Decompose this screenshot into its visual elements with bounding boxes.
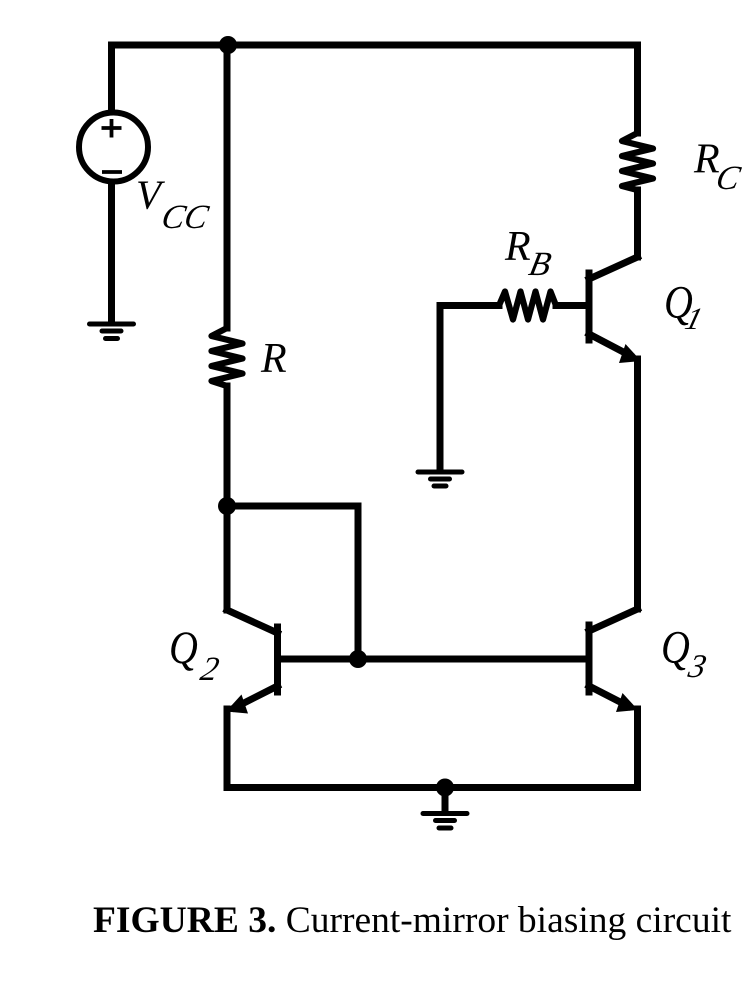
label VCC (136, 172, 213, 236)
voltage source VCC (79, 113, 148, 182)
svg-text:Q: Q (661, 622, 690, 674)
transistor Q2 (274, 627, 281, 692)
wire RC bottom lead (634, 190, 641, 257)
wire base rail Q2-Q3 (278, 656, 590, 663)
node junction base rail (349, 650, 367, 668)
svg-text:R: R (693, 137, 720, 183)
resistor R (212, 328, 243, 386)
node junction top rail (219, 36, 237, 54)
resistor RC (622, 133, 653, 190)
wire Q3 emitter lead (634, 709, 641, 788)
svg-text:V: V (136, 172, 165, 218)
label Q1 (664, 277, 706, 336)
wire RC top lead (634, 45, 641, 133)
label Q3 (661, 622, 710, 685)
ground (below RB) (418, 472, 462, 486)
wire node A to base rail (227, 506, 358, 659)
wire R branch upper (224, 45, 231, 328)
svg-text:CC: CC (158, 198, 212, 236)
wire top rail (112, 42, 638, 49)
wire RB left lead (440, 306, 499, 471)
wire R branch lower (224, 386, 231, 506)
transistor Q1 (586, 273, 593, 340)
transistor Q3 (586, 625, 593, 692)
label Q2 (169, 622, 222, 688)
node junction bottom ground (436, 779, 454, 797)
label RB (504, 224, 555, 283)
wire VCC bottom lead (108, 184, 115, 322)
svg-text:R: R (504, 224, 531, 270)
wire node-A vertical to Q2 collector (224, 506, 231, 610)
wire VCC top lead (108, 45, 115, 112)
wire Q2 emitter lead (224, 709, 231, 788)
svg-text:Q: Q (169, 622, 198, 674)
label RC (693, 137, 745, 197)
svg-text:2: 2 (197, 650, 222, 688)
svg-text:FIGURE 3. Current-mirror biasi: FIGURE 3. Current-mirror biasing circuit (93, 900, 732, 941)
svg-text:R: R (260, 336, 287, 382)
resistor RB (499, 292, 556, 320)
node junction R bottom (218, 497, 236, 515)
ground (bottom center) (423, 814, 467, 829)
wire ground stub bottom (442, 788, 449, 812)
wire Q1 emitter to Q3 collector (634, 359, 641, 609)
wire bottom rail (227, 784, 638, 791)
ground (below VCC) (90, 324, 134, 339)
wire RB right lead to Q1 base (556, 302, 589, 309)
